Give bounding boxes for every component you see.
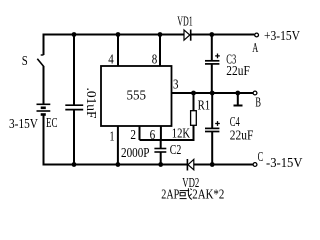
svg-text:2AP: 2AP: [161, 186, 179, 201]
svg-text:8: 8: [152, 52, 158, 67]
svg-text:C: C: [258, 149, 264, 164]
wire battery to bottom rail: [43, 116, 45, 166]
capacitor C4 plates: [205, 128, 219, 131]
svg-text:VD1: VD1: [177, 14, 193, 29]
svg-text:EC: EC: [46, 115, 58, 130]
wire pin 3 output line: [172, 92, 254, 94]
node pin3 / C3-C4: [210, 91, 215, 96]
svg-text:22uF: 22uF: [226, 63, 250, 78]
CJK glyph substitute in 2AP或2AK*2: [180, 188, 192, 199]
node pin3 / R1: [191, 91, 196, 96]
node B stub vertical: [237, 93, 239, 105]
resistor R1 body: [191, 111, 197, 126]
svg-text:2000P: 2000P: [121, 145, 150, 160]
op-amp U1 555 timer box: [101, 66, 172, 126]
svg-text:S: S: [22, 53, 28, 68]
wire bottom rail left of VD2: [44, 164, 188, 166]
node bottom rail / C2: [158, 162, 163, 167]
capacitor C1 .01uF plates: [65, 105, 83, 109]
C3 plus sign: [215, 54, 220, 59]
svg-text:.01uF: .01uF: [84, 88, 99, 119]
wire pin 6: [160, 126, 162, 140]
terminal A circle: [255, 33, 259, 37]
svg-text:3: 3: [173, 77, 179, 92]
wire C3 top lead: [211, 35, 213, 61]
C4 plus sign: [215, 121, 220, 126]
svg-text:6: 6: [150, 127, 156, 142]
wire top rail right of VD1: [191, 34, 255, 36]
wire pins 2-6-R1 tie line: [140, 139, 194, 141]
capacitor C2 2000P plates: [154, 149, 166, 153]
svg-text:12K: 12K: [172, 125, 190, 140]
wire switch to battery: [43, 66, 45, 104]
svg-text:4: 4: [108, 52, 114, 67]
terminal B circle: [253, 91, 257, 95]
wire pin 2: [139, 126, 141, 140]
wire C2 top lead: [160, 140, 162, 149]
svg-text:C2: C2: [170, 142, 182, 157]
wire C1 bottom: [73, 110, 75, 165]
wire pin 8: [159, 35, 161, 67]
wire pin 1: [117, 126, 119, 165]
wire C4 bottom lead: [211, 132, 213, 165]
wire C3 bottom lead: [211, 64, 213, 93]
battery EC plates: [37, 104, 51, 114]
node top rail / pin 4: [116, 32, 121, 37]
node top rail / C1: [72, 32, 77, 37]
svg-text:555: 555: [127, 88, 147, 103]
node top rail / C3: [209, 32, 214, 37]
diode VD2: [187, 159, 193, 171]
svg-text:22uF: 22uF: [230, 128, 254, 143]
svg-text:3-15V: 3-15V: [9, 116, 38, 131]
wire top rail left of VD1: [43, 34, 185, 36]
wire left branch upper: [43, 34, 45, 56]
svg-text:+3-15V: +3-15V: [264, 28, 300, 43]
node pin3 / B stub: [235, 91, 240, 96]
svg-text:B: B: [255, 95, 261, 110]
svg-text:1: 1: [110, 129, 115, 144]
wire R1 top lead: [193, 93, 195, 111]
node top rail / pin 8: [158, 32, 163, 37]
wire C1 top: [73, 35, 75, 106]
node bottom rail / C1: [72, 162, 77, 167]
node bottom rail / C4: [210, 162, 215, 167]
wire bottom rail right of VD2: [194, 164, 253, 166]
svg-text:2AK*2: 2AK*2: [192, 186, 224, 201]
wire switch contact tick: [41, 54, 44, 56]
svg-text:-3-15V: -3-15V: [266, 155, 303, 170]
svg-text:A: A: [252, 40, 258, 55]
capacitor C3 plates: [205, 61, 219, 64]
wire C2 bottom lead: [160, 152, 162, 165]
wire C4 top lead: [211, 93, 213, 128]
terminal C circle: [253, 163, 257, 167]
node bottom rail / pin 1: [116, 162, 121, 167]
wire pin 4: [117, 35, 119, 67]
diode VD1: [184, 30, 191, 41]
svg-text:2: 2: [130, 127, 136, 142]
node B stub bar: [234, 105, 243, 107]
wire R1 bottom lead: [193, 125, 195, 141]
svg-text:R1: R1: [198, 98, 211, 113]
switch S blade: [37, 59, 43, 67]
